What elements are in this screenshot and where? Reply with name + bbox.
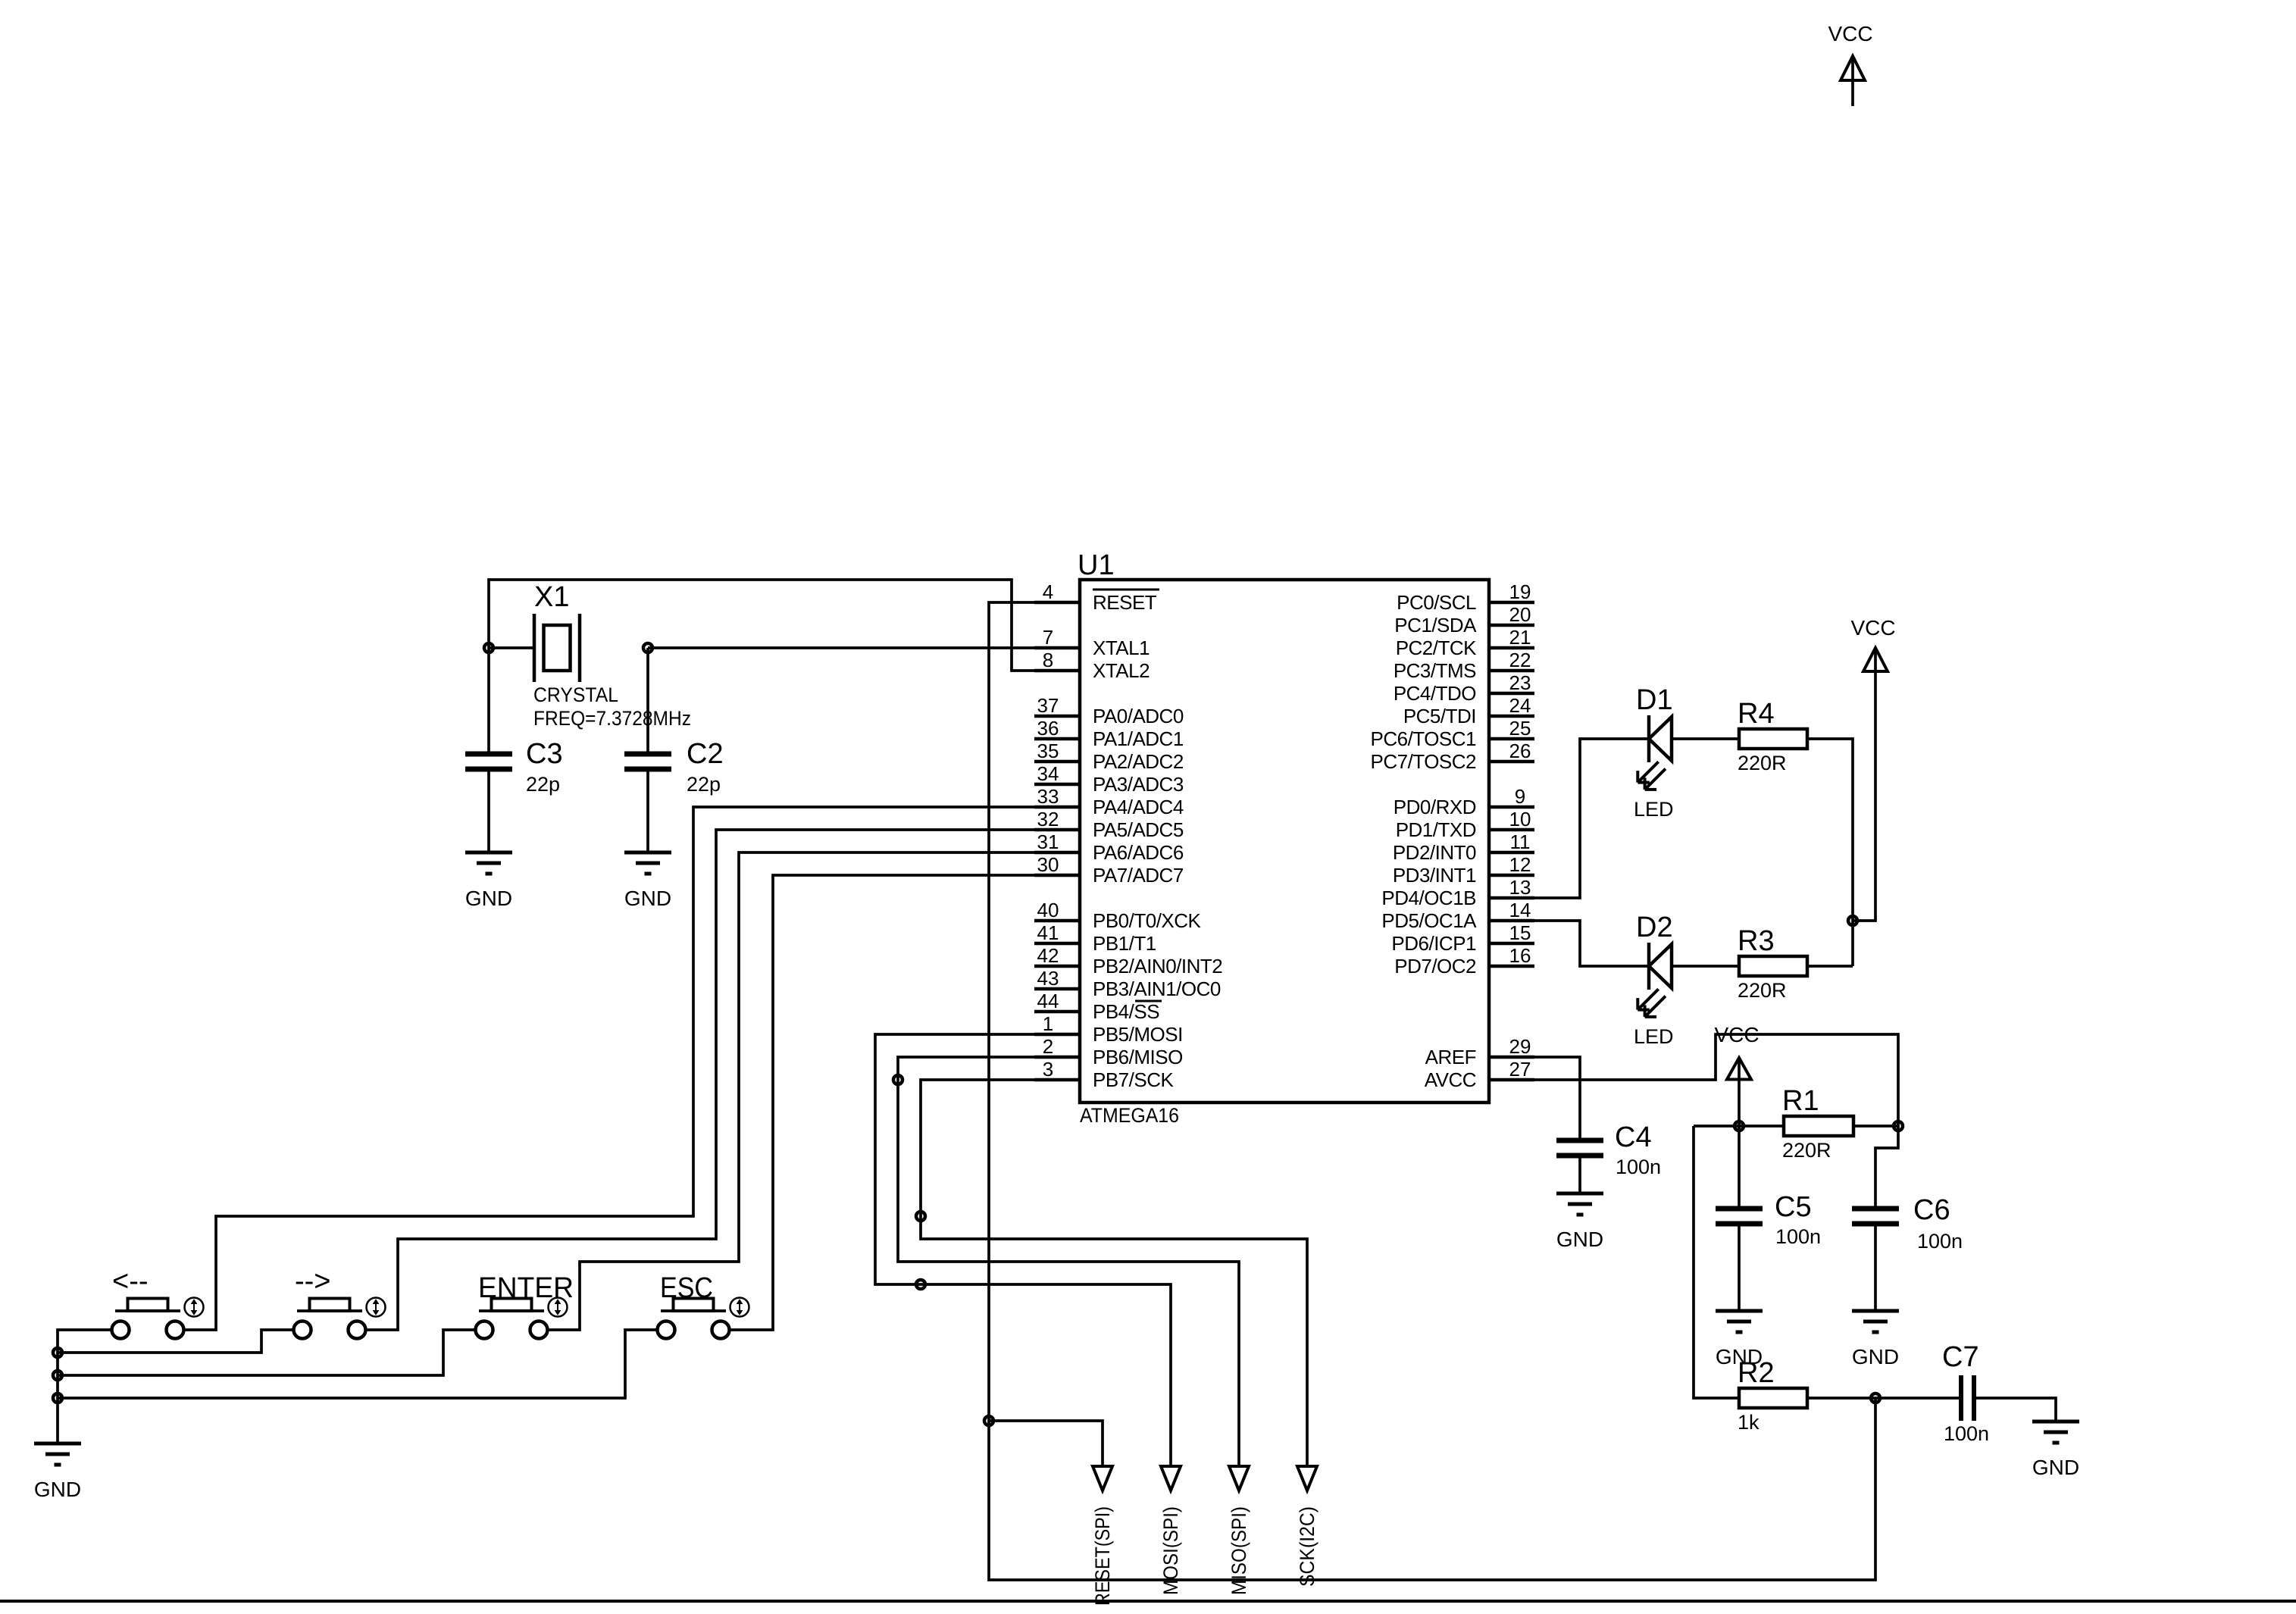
svg-text:220R: 220R: [1782, 1139, 1831, 1162]
svg-text:U1: U1: [1078, 549, 1115, 581]
wire C6 to ground: [1874, 1224, 1877, 1311]
wire VCC stem to LED rail: [1853, 671, 1875, 921]
junction: [484, 643, 493, 652]
U1 pin 14 PD5/OC1A: [1381, 899, 1534, 932]
svg-text:PB1/T1: PB1/T1: [1093, 932, 1156, 955]
svg-text:7: 7: [1043, 626, 1053, 649]
svg-text:PC3/TMS: PC3/TMS: [1394, 659, 1476, 682]
svg-text:X1: X1: [534, 581, 569, 613]
svg-text:22p: 22p: [526, 773, 560, 796]
wire D2 to R3: [1672, 965, 1739, 968]
svg-text:AVCC: AVCC: [1425, 1068, 1476, 1091]
wire C5 branch: [1738, 1126, 1741, 1209]
svg-text:PD2/INT0: PD2/INT0: [1393, 841, 1476, 864]
U1 pin 21 PC2/TCK: [1396, 626, 1534, 659]
svg-text:1: 1: [1043, 1012, 1053, 1035]
wire PB5/MOSI net: [875, 1034, 1171, 1466]
power VCC (AVCC): [1714, 1023, 1759, 1126]
U1 pin 33 PA4/ADC4: [1034, 785, 1184, 818]
svg-text:13: 13: [1509, 876, 1531, 899]
svg-text:LED: LED: [1634, 1025, 1674, 1048]
svg-text:PD6/ICP1: PD6/ICP1: [1391, 932, 1476, 955]
svg-text:21: 21: [1509, 626, 1531, 649]
wire pin 14 to D2: [1534, 921, 1649, 966]
junction: [916, 1280, 925, 1289]
svg-text:PB4/SS: PB4/SS: [1093, 1000, 1159, 1023]
wire R1 left node: [1694, 1124, 1784, 1128]
wire XTAL2 net (crystal left to pin 8): [489, 580, 1080, 671]
wire crystal left lead: [489, 646, 534, 649]
svg-text:D2: D2: [1636, 912, 1673, 943]
capacitor C3 22p: [465, 738, 563, 796]
ground (C6): [1852, 1311, 1899, 1368]
power VCC (top): [1828, 22, 1872, 106]
U1 pin 43 PB3/AIN1/OC0: [1034, 967, 1221, 1000]
wire RESET net: pin 4 down to reset branch and RC network: [989, 602, 1875, 1580]
svg-text:R2: R2: [1738, 1357, 1775, 1389]
wire R4 to VCC rail: [1807, 739, 1853, 966]
LED D1: [1634, 684, 1674, 821]
U1 pin 35 PA2/ADC2: [1034, 740, 1184, 773]
U1 pin 12 PD3/INT1: [1393, 853, 1534, 887]
svg-text:PC1/SDA: PC1/SDA: [1394, 614, 1477, 637]
svg-text:PC4/TDO: PC4/TDO: [1394, 682, 1476, 705]
U1 pin 7 XTAL1: [1034, 626, 1150, 659]
U1 pin 10 PD1/TXD: [1396, 808, 1534, 841]
svg-text:40: 40: [1037, 899, 1059, 921]
svg-text:GND: GND: [624, 887, 671, 910]
svg-text:44: 44: [1037, 990, 1059, 1012]
wire reset node to C7: [1875, 1397, 1959, 1400]
junction: [893, 1075, 902, 1084]
svg-text:PA3/ADC3: PA3/ADC3: [1093, 773, 1184, 796]
U1 pin 3 PB7/SCK: [1034, 1058, 1174, 1091]
U1 pin 1 PB5/MOSI: [1034, 1012, 1183, 1046]
svg-text:C4: C4: [1615, 1121, 1652, 1153]
svg-text:MISO(SPI): MISO(SPI): [1228, 1506, 1250, 1595]
wire C4 to ground: [1578, 1156, 1581, 1193]
U1 pin 41 PB1/T1: [1034, 921, 1156, 955]
svg-text:PB3/AIN1/OC0: PB3/AIN1/OC0: [1093, 977, 1221, 1000]
U1 pin 15 PD6/ICP1: [1391, 921, 1534, 955]
wire AVCC to VCC rail: [1534, 1034, 1898, 1126]
U1 pin 13 PD4/OC1B: [1381, 876, 1534, 909]
svg-text:42: 42: [1037, 944, 1059, 967]
svg-text:PD3/INT1: PD3/INT1: [1393, 864, 1476, 887]
U1 pin 19 PC0/SCL: [1397, 580, 1534, 614]
svg-text:PB2/AIN0/INT2: PB2/AIN0/INT2: [1093, 955, 1222, 977]
U1 pin 4 RESET: [1034, 580, 1159, 614]
svg-text:GND: GND: [2032, 1456, 2079, 1479]
svg-text:PA4/ADC4: PA4/ADC4: [1093, 796, 1184, 818]
svg-text:22: 22: [1509, 649, 1531, 671]
svg-text:CRYSTAL: CRYSTAL: [533, 683, 618, 706]
wire C2 to ground: [646, 769, 649, 852]
U1 pin 2 PB6/MISO: [1034, 1035, 1183, 1068]
pushbutton S1 (left arrow): [112, 1265, 204, 1339]
svg-text:C2: C2: [687, 738, 724, 770]
svg-text:PA6/ADC6: PA6/ADC6: [1093, 841, 1184, 864]
svg-text:XTAL1: XTAL1: [1093, 637, 1150, 659]
wire PA7 to button 4: [729, 875, 1080, 1330]
junction: [643, 643, 652, 652]
svg-text:XTAL2: XTAL2: [1093, 659, 1150, 682]
svg-text:C7: C7: [1942, 1341, 1979, 1373]
svg-text:-->: -->: [295, 1265, 331, 1297]
svg-text:ATMEGA16: ATMEGA16: [1080, 1104, 1179, 1127]
ground (C4): [1556, 1193, 1603, 1251]
svg-text:220R: 220R: [1738, 979, 1787, 1002]
U1 pin 16 PD7/OC2: [1394, 944, 1534, 977]
wire bus to button 3 left: [58, 1330, 476, 1375]
IC U1 ATMEGA16 body: [1080, 580, 1489, 1103]
U1 pin 9 PD0/RXD: [1394, 785, 1534, 818]
junction: [53, 1348, 62, 1357]
svg-text:R4: R4: [1738, 698, 1775, 730]
svg-text:26: 26: [1509, 740, 1531, 762]
svg-text:27: 27: [1509, 1058, 1531, 1081]
U1 pin 8 XTAL2: [1034, 649, 1150, 682]
capacitor C5 100n: [1716, 1191, 1821, 1248]
svg-text:PB5/MOSI: PB5/MOSI: [1093, 1023, 1183, 1046]
svg-text:100n: 100n: [1917, 1230, 1963, 1253]
wire pin 13 to D1: [1534, 739, 1649, 898]
pushbutton S4 ESC: [658, 1272, 749, 1339]
svg-text:19: 19: [1509, 580, 1531, 603]
svg-text:PA7/ADC7: PA7/ADC7: [1093, 864, 1184, 887]
capacitor C7 100n: [1942, 1341, 1989, 1445]
svg-text:3: 3: [1043, 1058, 1053, 1081]
resistor R2 1k: [1738, 1357, 1807, 1434]
svg-text:34: 34: [1037, 762, 1059, 785]
svg-text:41: 41: [1037, 921, 1059, 944]
U1 pin 37 PA0/ADC0: [1034, 694, 1184, 727]
svg-text:R3: R3: [1738, 925, 1775, 957]
svg-text:36: 36: [1037, 717, 1059, 740]
wire PB7/SCK net: [921, 1080, 1307, 1466]
svg-text:4: 4: [1043, 580, 1053, 603]
capacitor C6 100n: [1852, 1194, 1963, 1253]
junction: [53, 1371, 62, 1380]
svg-text:25: 25: [1509, 717, 1531, 740]
U1 pin 20 PC1/SDA: [1394, 603, 1534, 637]
svg-text:16: 16: [1509, 944, 1531, 967]
svg-text:PA2/ADC2: PA2/ADC2: [1093, 750, 1184, 773]
svg-text:100n: 100n: [1775, 1225, 1821, 1248]
junction: [1848, 916, 1857, 925]
svg-text:43: 43: [1037, 967, 1059, 990]
svg-text:R1: R1: [1782, 1085, 1819, 1117]
svg-text:100n: 100n: [1944, 1422, 1989, 1445]
svg-text:<--: <--: [112, 1265, 149, 1297]
resistor R4 220R: [1738, 698, 1807, 774]
wire PA5 to button 2: [365, 830, 1080, 1330]
svg-text:RESET: RESET: [1093, 591, 1157, 614]
svg-text:PB0/T0/XCK: PB0/T0/XCK: [1093, 909, 1202, 932]
svg-text:PC6/TOSC1: PC6/TOSC1: [1370, 727, 1476, 750]
wire C7 to ground: [1976, 1398, 2056, 1422]
svg-text:24: 24: [1509, 694, 1531, 717]
svg-text:11: 11: [1510, 830, 1531, 853]
svg-text:GND: GND: [1852, 1345, 1899, 1368]
node MISO(SPI) arrow: [1228, 1466, 1250, 1595]
svg-text:PC7/TOSC2: PC7/TOSC2: [1370, 750, 1476, 773]
svg-text:PD0/RXD: PD0/RXD: [1394, 796, 1476, 818]
svg-text:12: 12: [1509, 853, 1531, 876]
wire C3 to ground: [487, 769, 490, 852]
U1 pin 32 PA5/ADC5: [1034, 808, 1184, 841]
junction: [1894, 1121, 1903, 1131]
wire PB6/MISO net: [898, 1057, 1239, 1466]
svg-text:35: 35: [1037, 740, 1059, 762]
svg-text:GND: GND: [465, 887, 512, 910]
svg-text:PD1/TXD: PD1/TXD: [1396, 818, 1476, 841]
svg-text:PA0/ADC0: PA0/ADC0: [1093, 705, 1184, 727]
svg-text:20: 20: [1509, 603, 1531, 626]
U1 pin 24 PC5/TDI: [1403, 694, 1534, 727]
U1 pin 25 PC6/TOSC1: [1370, 717, 1534, 750]
svg-text:VCC: VCC: [1850, 616, 1895, 640]
svg-text:ENTER: ENTER: [478, 1272, 574, 1304]
svg-text:PD7/OC2: PD7/OC2: [1394, 955, 1476, 977]
wire C6 branch with jog: [1875, 1126, 1898, 1209]
wire bus to button 2 left: [58, 1330, 294, 1353]
wire bus to button 4 left: [58, 1330, 658, 1398]
capacitor C2 22p: [624, 738, 724, 796]
svg-text:10: 10: [1509, 808, 1531, 830]
svg-text:D1: D1: [1636, 684, 1673, 716]
svg-text:14: 14: [1509, 899, 1531, 921]
svg-text:1k: 1k: [1738, 1411, 1760, 1434]
resistor R3 220R: [1738, 925, 1807, 1002]
junction: [1735, 1121, 1744, 1131]
svg-text:100n: 100n: [1616, 1156, 1661, 1178]
frame border bottom: [0, 1600, 2296, 1603]
LED D2: [1634, 912, 1674, 1048]
svg-text:PA5/ADC5: PA5/ADC5: [1093, 818, 1184, 841]
svg-text:SCK(I2C): SCK(I2C): [1296, 1506, 1318, 1587]
U1 pin 40 PB0/T0/XCK: [1034, 899, 1202, 932]
svg-text:GND: GND: [1556, 1228, 1603, 1251]
svg-text:30: 30: [1037, 853, 1059, 876]
wire AREF to C4: [1534, 1057, 1580, 1140]
U1 pin 23 PC4/TDO: [1394, 671, 1534, 705]
svg-text:37: 37: [1037, 694, 1059, 717]
svg-text:PA1/ADC1: PA1/ADC1: [1093, 727, 1184, 750]
svg-text:C3: C3: [526, 738, 563, 770]
wire D1 to R4: [1672, 737, 1739, 740]
svg-text:8: 8: [1043, 649, 1053, 671]
svg-text:ESC: ESC: [660, 1272, 713, 1304]
svg-text:29: 29: [1509, 1035, 1531, 1058]
svg-text:C6: C6: [1913, 1194, 1950, 1226]
junction: [984, 1416, 993, 1425]
svg-text:PC0/SCL: PC0/SCL: [1397, 591, 1476, 614]
junction: [916, 1212, 925, 1221]
node RESET(SPI) arrow: [1091, 1466, 1114, 1606]
svg-text:LED: LED: [1634, 798, 1674, 821]
U1 pin 27 AVCC: [1425, 1058, 1534, 1091]
svg-text:PC2/TCK: PC2/TCK: [1396, 637, 1477, 659]
svg-text:C5: C5: [1775, 1191, 1812, 1223]
U1 pin 36 PA1/ADC1: [1034, 717, 1184, 750]
svg-text:PD4/OC1B: PD4/OC1B: [1381, 887, 1476, 909]
svg-text:VCC: VCC: [1828, 22, 1872, 45]
wire button ground bus: [58, 1330, 112, 1444]
wire XTAL1 net (crystal right to pin 7): [648, 646, 1080, 649]
ground (button bus): [34, 1444, 81, 1501]
U1 pin 11 PD2/INT0: [1393, 830, 1534, 864]
junction: [53, 1393, 62, 1403]
svg-text:9: 9: [1515, 785, 1525, 808]
svg-text:VCC: VCC: [1714, 1023, 1759, 1046]
svg-text:AREF: AREF: [1425, 1046, 1476, 1068]
svg-text:PC5/TDI: PC5/TDI: [1403, 705, 1476, 727]
svg-text:15: 15: [1509, 921, 1531, 944]
U1 pin 42 PB2/AIN0/INT2: [1034, 944, 1222, 977]
U1 pin 44 PB4/SS: [1034, 990, 1162, 1023]
wire C3 branch: [487, 648, 490, 754]
wire R1 right node: [1853, 1124, 1898, 1128]
svg-text:33: 33: [1037, 785, 1059, 808]
svg-text:22p: 22p: [687, 773, 721, 796]
svg-text:32: 32: [1037, 808, 1059, 830]
svg-text:31: 31: [1037, 830, 1059, 853]
pushbutton S2 (right arrow): [294, 1265, 386, 1339]
node SCK(I2C) arrow: [1296, 1466, 1318, 1587]
U1 pin 34 PA3/ADC3: [1034, 762, 1184, 796]
wire PA4 to button 1: [183, 807, 1080, 1330]
svg-text:GND: GND: [34, 1478, 81, 1501]
resistor R1 220R: [1782, 1085, 1853, 1162]
wire R3 to VCC rail: [1807, 965, 1853, 968]
wire C2 branch: [646, 648, 649, 754]
wire RESET(SPI) branch: [989, 1421, 1103, 1466]
U1 pin 30 PA7/ADC7: [1034, 853, 1184, 887]
svg-text:MOSI(SPI): MOSI(SPI): [1159, 1506, 1182, 1595]
junction: [1871, 1393, 1880, 1403]
crystal X1: [533, 581, 691, 730]
ground (C7): [2032, 1422, 2079, 1479]
ground (C3): [465, 852, 512, 910]
wire VCC node down to R2: [1694, 1126, 1739, 1398]
wire C5 to ground: [1738, 1224, 1741, 1311]
svg-text:2: 2: [1043, 1035, 1053, 1058]
U1 pin 31 PA6/ADC6: [1034, 830, 1184, 864]
wire R2 to reset node: [1807, 1397, 1875, 1400]
node MOSI(SPI) arrow: [1159, 1466, 1182, 1595]
U1 pin 26 PC7/TOSC2: [1370, 740, 1534, 773]
ground (C2): [624, 852, 671, 910]
U1 pin 22 PC3/TMS: [1394, 649, 1534, 682]
pushbutton S3 ENTER: [476, 1272, 574, 1339]
svg-text:PB7/SCK: PB7/SCK: [1093, 1068, 1174, 1091]
wire PA6 to button 3: [547, 852, 1080, 1330]
svg-text:220R: 220R: [1738, 752, 1787, 774]
svg-text:PB6/MISO: PB6/MISO: [1093, 1046, 1183, 1068]
svg-text:FREQ=7.3728MHz: FREQ=7.3728MHz: [533, 707, 691, 730]
svg-text:PD5/OC1A: PD5/OC1A: [1381, 909, 1477, 932]
svg-text:RESET(SPI): RESET(SPI): [1091, 1506, 1114, 1606]
svg-text:23: 23: [1509, 671, 1531, 694]
ground (C5): [1716, 1311, 1763, 1368]
power VCC (LED rail): [1850, 616, 1895, 671]
U1 pin 29 AREF: [1425, 1035, 1534, 1068]
capacitor C4 100n: [1556, 1121, 1661, 1178]
